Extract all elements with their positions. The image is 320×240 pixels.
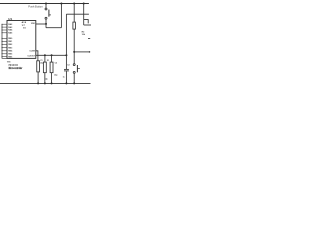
node C2 top [51, 54, 53, 56]
VDD rail [0, 3, 89, 5]
wire rail to R2 [73, 4, 75, 23]
svg-text:RB0: RB0 [8, 38, 13, 40]
GND rail [0, 82, 91, 84]
wire OSC2 net [36, 54, 67, 56]
wire left bus [2, 24, 7, 58]
resistor R2 [73, 22, 76, 29]
svg-text:RB3: RB3 [8, 47, 13, 49]
capacitor C3 [64, 69, 69, 71]
wire V6 [83, 4, 85, 20]
wire C3 to ground [65, 71, 67, 83]
svg-text:VDD: VDD [31, 23, 36, 25]
node rail-R2 [73, 2, 75, 4]
svg-text:22p: 22p [54, 75, 58, 77]
node gnd S2 [73, 82, 75, 84]
wire H5 [46, 27, 61, 29]
node gnd C1 [37, 82, 39, 84]
svg-text:RA3: RA3 [8, 26, 13, 29]
svg-text:RB4: RB4 [8, 50, 13, 53]
bus junction dots [2, 24, 3, 58]
node rail-V3 [60, 2, 62, 4]
label fragment right edge [88, 38, 90, 39]
svg-text:22p: 22p [45, 78, 49, 80]
wire C2 lead top [51, 55, 53, 62]
wire S1 bottom down [45, 19, 47, 27]
wire rail to S1 top [45, 4, 47, 9]
wire V6 lower [83, 20, 85, 25]
pin labels left [8, 23, 13, 59]
svg-text:C3: C3 [67, 65, 69, 67]
node rail-S1 [45, 2, 47, 4]
svg-text:Microcontroller: Microcontroller [9, 67, 23, 70]
wire X1 to ground [44, 73, 46, 84]
capacitor C2 [50, 62, 53, 73]
wire H7 [74, 51, 90, 53]
node X1 top [44, 54, 46, 56]
svg-text:16: 16 [23, 28, 26, 30]
wire C1 to ground [37, 72, 39, 84]
node H7 [73, 51, 75, 53]
push button S1 [45, 8, 51, 19]
svg-text:1u: 1u [63, 77, 65, 79]
svg-text:RB1: RB1 [8, 41, 13, 43]
IC U1 PIC16F84 microcontroller [7, 21, 36, 59]
node V4-OSC2 [65, 54, 67, 56]
svg-text:RA2: RA2 [8, 23, 13, 26]
svg-text:CLKIN: CLKIN [29, 51, 35, 53]
node gnd X1 [44, 82, 46, 84]
svg-text:RB2: RB2 [8, 44, 13, 46]
wire OSC1 pin jog [36, 51, 38, 61]
svg-text:CLKOUT: CLKOUT [27, 55, 35, 57]
svg-text:10k: 10k [82, 34, 86, 36]
node gnd C2 [51, 82, 53, 84]
svg-text:Push Button: Push Button [28, 4, 43, 8]
wire H2 [66, 13, 89, 15]
svg-text:A18: A18 [22, 21, 28, 24]
connector J1 [84, 20, 89, 24]
capacitor C1 [37, 61, 40, 72]
svg-text:U1: U1 [8, 17, 12, 21]
pin labels inner column [22, 21, 28, 29]
wire X1 lead top [44, 55, 46, 62]
wire V4 [65, 14, 67, 69]
svg-text:C2: C2 [55, 63, 58, 65]
wire R2 down [73, 29, 75, 64]
wire S2 to ground [73, 73, 75, 83]
wire V3 [60, 4, 62, 28]
node rail-V6 [83, 2, 85, 4]
wire C2 to ground [51, 73, 53, 84]
crystal X1 [43, 62, 46, 73]
node pin4 junction [45, 23, 47, 25]
push button S2 [73, 64, 80, 74]
node H7 end [89, 51, 91, 53]
wire pin VDD tick [36, 23, 46, 25]
svg-text:RA4: RA4 [8, 29, 13, 32]
svg-text:RB5: RB5 [8, 54, 13, 56]
svg-text:X1: X1 [47, 60, 50, 62]
node gnd C3 [65, 82, 67, 84]
pin ticks left [2, 24, 7, 57]
svg-text:RA5: RA5 [8, 32, 13, 35]
wire J1 exit [84, 24, 91, 26]
